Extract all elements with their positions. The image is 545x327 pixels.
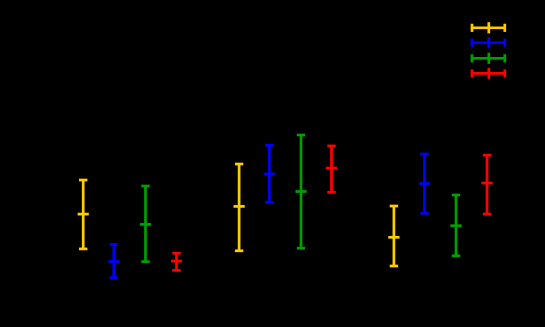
error bar series4 group1 (red) — [171, 253, 182, 270]
error bar series3 group3 (green) — [450, 195, 461, 256]
error bar series1 group3 (yellow) — [388, 206, 399, 266]
legend sample series1 (yellow) — [471, 22, 506, 33]
error bar series1 group2 (yellow) — [234, 164, 245, 251]
error bar series1 group1 (yellow) — [78, 180, 89, 249]
error bar series3 group1 (green) — [140, 186, 151, 262]
error bar series3 group2 (green) — [295, 135, 306, 248]
error bar series4 group3 (red) — [481, 155, 492, 214]
error bar series4 group2 (red) — [326, 146, 337, 192]
error bar series2 group2 (blue) — [264, 145, 275, 202]
legend sample series3 (green) — [471, 53, 506, 64]
legend sample series4 (red) — [471, 68, 506, 79]
error bar series2 group1 (blue) — [108, 244, 119, 277]
legend sample series2 (blue) — [471, 37, 506, 48]
error bar series2 group3 (blue) — [419, 154, 430, 213]
